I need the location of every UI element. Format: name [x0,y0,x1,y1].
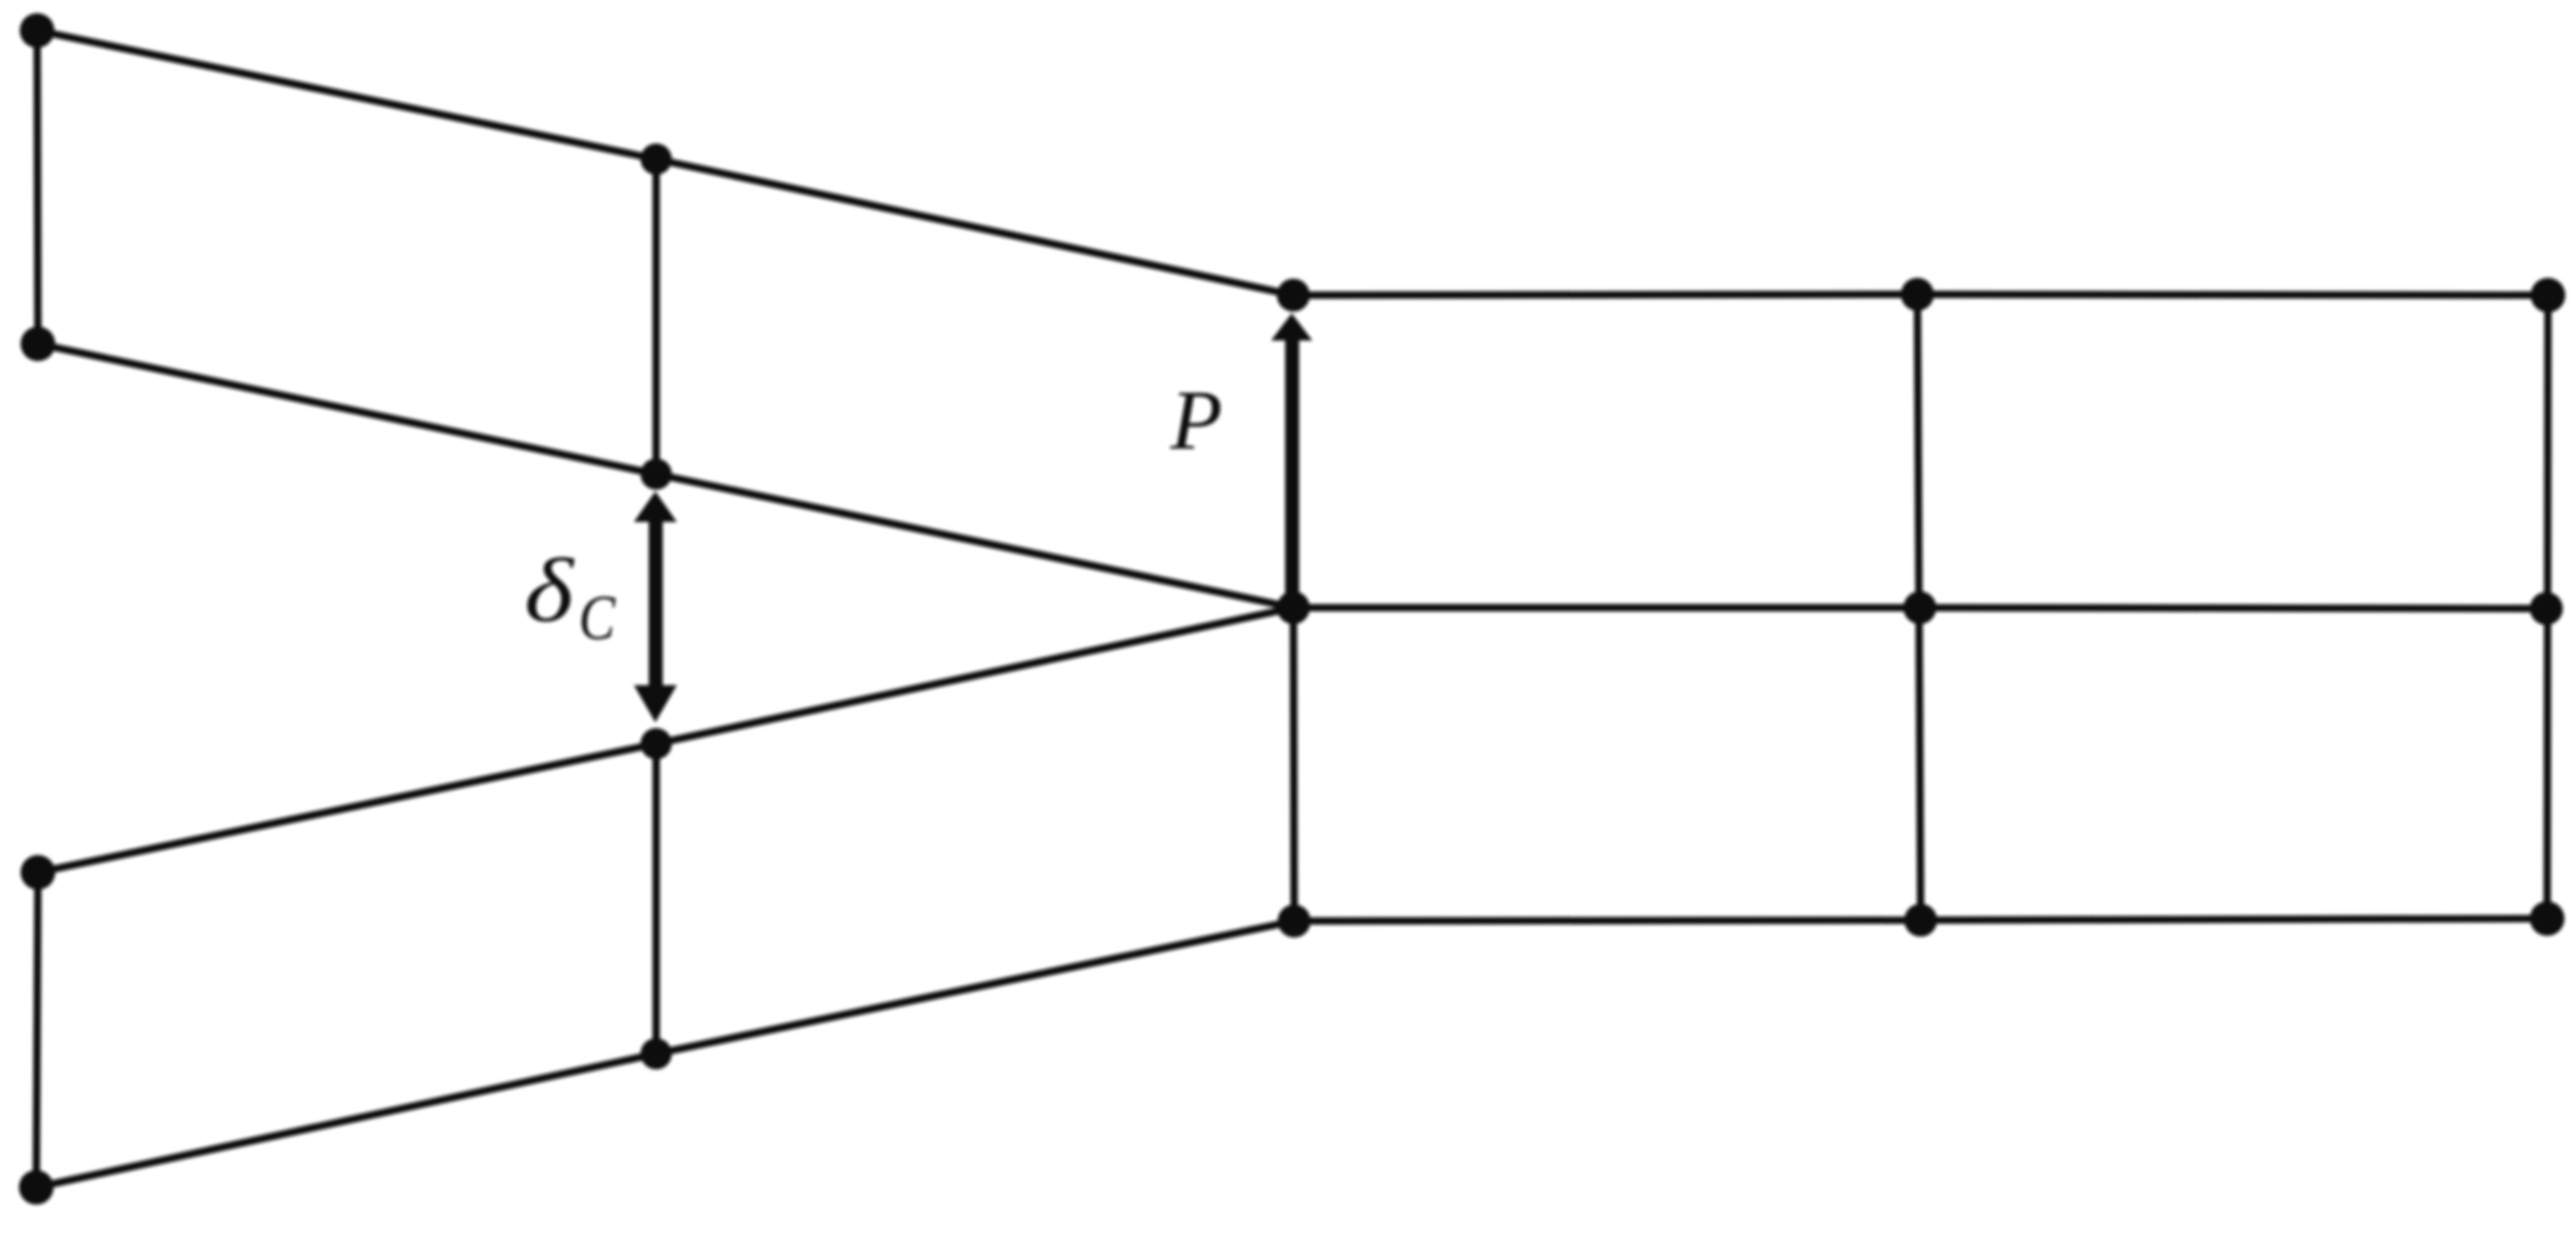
svg-text:δ: δ [524,540,575,641]
svg-text:C: C [579,582,616,653]
svg-text:P: P [1170,374,1222,468]
